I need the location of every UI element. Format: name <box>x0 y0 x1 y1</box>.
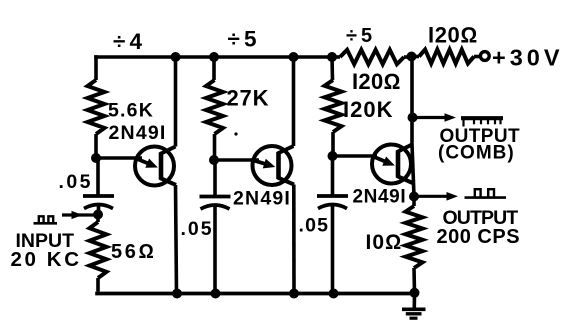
svg-text:20 KC: 20 KC <box>11 248 82 271</box>
svg-text:I0Ω: I0Ω <box>366 231 403 254</box>
svg-text:I20Ω: I20Ω <box>352 69 401 94</box>
svg-text:.05: .05 <box>299 215 330 237</box>
svg-text:÷5: ÷5 <box>228 27 261 52</box>
svg-text:5.6K: 5.6K <box>108 100 154 122</box>
svg-text:2N49I: 2N49I <box>109 122 167 144</box>
svg-text:.05: .05 <box>181 218 214 240</box>
svg-text:÷4: ÷4 <box>113 29 146 54</box>
svg-text:2N49I: 2N49I <box>353 187 407 208</box>
svg-text:I20Ω: I20Ω <box>428 23 478 48</box>
svg-text:200 CPS: 200 CPS <box>437 226 521 248</box>
svg-text:.05: .05 <box>59 171 93 193</box>
svg-text:I20K: I20K <box>343 97 393 122</box>
svg-text:27K: 27K <box>227 86 270 111</box>
svg-text:56Ω: 56Ω <box>111 241 156 263</box>
svg-text:+30V: +30V <box>492 45 564 71</box>
svg-text:÷5: ÷5 <box>346 25 376 47</box>
svg-text:2N49I: 2N49I <box>233 188 291 210</box>
svg-text:(COMB): (COMB) <box>438 143 515 164</box>
